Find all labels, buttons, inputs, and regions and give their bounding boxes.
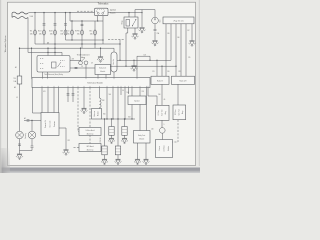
junction J10	[81, 43, 82, 44]
inline connector	[18, 144, 21, 145]
horn H1 body	[152, 17, 159, 24]
GPS aerial box	[79, 144, 101, 152]
svg-text:Theft Deterrent: Theft Deterrent	[77, 53, 90, 56]
svg-text:Telematics: Telematics	[98, 2, 110, 5]
relay (telematics)	[128, 13, 130, 17]
resistor	[115, 146, 120, 155]
junction	[124, 118, 125, 119]
junction	[125, 66, 126, 67]
fuse F4 (IGN 10A)	[64, 30, 67, 35]
ground	[139, 28, 146, 34]
ground	[108, 138, 115, 144]
svg-text:Telematics Options: Telematics Options	[4, 36, 7, 53]
wire	[34, 13, 36, 44]
circuit breaker squiggle top-left	[12, 12, 28, 18]
inline connector	[31, 146, 34, 147]
scan shadows	[0, 167, 200, 173]
svg-text:806: 806	[103, 114, 106, 116]
RF door speaker box U4	[173, 105, 186, 120]
wire	[166, 24, 192, 76]
junction J7	[19, 48, 20, 49]
junction	[71, 20, 72, 21]
inline connector	[64, 24, 67, 25]
wire	[96, 9, 104, 13]
fuse F6 (HORN 15A)	[81, 30, 84, 35]
svg-text:46: 46	[164, 99, 166, 101]
svg-text:Telematics Module: Telematics Module	[87, 82, 103, 85]
ground	[81, 108, 88, 114]
inline connector	[27, 120, 30, 121]
wire	[132, 105, 140, 131]
junction	[119, 60, 120, 61]
wire	[154, 24, 156, 40]
ground	[189, 41, 196, 47]
svg-text:150: 150	[167, 71, 170, 73]
middle dual bus	[20, 44, 121, 48]
wire	[98, 16, 103, 44]
svg-text:151: 151	[152, 71, 155, 73]
junction	[111, 118, 112, 119]
ground	[143, 159, 150, 165]
junction	[69, 12, 70, 13]
junction J12	[80, 48, 81, 49]
junction	[31, 120, 32, 121]
wire	[32, 78, 149, 88]
svg-text:546: 546	[109, 94, 112, 96]
svg-text:149: 149	[167, 33, 170, 35]
junction	[106, 118, 107, 119]
svg-text:147: 147	[187, 30, 190, 32]
wire	[77, 10, 95, 12]
right pins	[147, 88, 158, 131]
right top: horn circle branch	[141, 10, 143, 28]
junction J6	[141, 12, 142, 13]
antenna interface module U6	[92, 109, 102, 120]
junction	[65, 12, 66, 13]
antenna coil chain	[100, 88, 102, 109]
junction J3	[71, 39, 72, 40]
wire	[70, 67, 95, 69]
svg-text:(Page Sch 1/2): (Page Sch 1/2)	[173, 21, 184, 23]
wire	[80, 48, 82, 61]
bcm small box	[95, 65, 111, 75]
junction J2	[97, 20, 98, 21]
wire	[59, 128, 66, 150]
schematic border frame	[8, 2, 196, 165]
horn H1 detail	[154, 19, 155, 20]
svg-text:49: 49	[91, 63, 93, 65]
inline connector	[72, 94, 75, 95]
wires from relay right to horn	[70, 59, 81, 62]
ground	[152, 41, 159, 47]
ground	[16, 154, 23, 160]
ignition switch S1 body	[95, 8, 109, 16]
ground	[121, 138, 128, 144]
wire	[33, 88, 42, 114]
ground	[101, 159, 108, 165]
main top bus	[28, 12, 142, 14]
fuse F7 (SEC 10A)	[94, 30, 97, 35]
svg-text:Ignition: Ignition	[110, 9, 116, 12]
wire	[133, 20, 136, 26]
wire	[40, 59, 65, 69]
junction J5	[135, 19, 136, 20]
stub pins with connectors	[68, 88, 73, 103]
wire	[138, 143, 147, 159]
speaker box pins	[132, 88, 140, 97]
coax dashed drops	[74, 88, 91, 148]
svg-text:Horn: Horn	[81, 56, 85, 59]
svg-text:Module: Module	[168, 146, 170, 151]
svg-text:Radio V1: Radio V1	[157, 81, 163, 83]
svg-text:115: 115	[188, 57, 191, 59]
junction	[43, 12, 44, 13]
theft deterrent horn terminal 1	[79, 61, 83, 65]
telematics module strip	[32, 78, 150, 88]
mid ground left of pill	[100, 48, 102, 56]
svg-text:146: 146	[127, 92, 130, 94]
svg-text:TEL: TEL	[13, 78, 16, 80]
resistor	[122, 127, 127, 136]
junction J4	[132, 25, 133, 26]
junction	[81, 20, 82, 21]
wire	[126, 28, 135, 66]
fuse row	[30, 13, 37, 44]
ignition switch	[70, 13, 103, 21]
wire	[117, 119, 119, 159]
junction	[133, 60, 134, 61]
junction J9	[54, 43, 55, 44]
inline connector	[54, 24, 57, 25]
left connector row	[24, 120, 41, 122]
svg-text:146: 146	[177, 37, 180, 39]
inline connector	[75, 67, 78, 68]
theft deterrent horn relay box	[37, 56, 70, 73]
wire	[82, 58, 86, 61]
wire	[85, 65, 87, 78]
svg-text:Module: Module	[98, 111, 100, 116]
svg-text:96: 96	[122, 90, 124, 92]
wire	[65, 13, 67, 40]
junction	[161, 66, 162, 67]
ground	[115, 159, 122, 165]
wire	[108, 39, 125, 41]
wire	[173, 120, 179, 142]
junction	[131, 118, 132, 119]
junction	[117, 118, 118, 119]
fuse F1 (TEL 10A)	[34, 30, 37, 35]
inline connector	[67, 94, 70, 95]
scan left shadow (decor)	[0, 0, 2, 173]
OnStar communication module U5 body	[156, 140, 173, 158]
junction J8	[54, 48, 55, 49]
resistor	[102, 146, 107, 155]
right column small boxes	[162, 84, 178, 105]
fuse F5 (TD 15A)	[71, 30, 74, 35]
inline connector	[154, 29, 157, 30]
microphone M1	[160, 128, 166, 134]
page box top right	[163, 17, 194, 24]
junction J11	[94, 43, 95, 44]
svg-text:Radio 12V: Radio 12V	[179, 81, 186, 83]
paper background	[0, 0, 200, 173]
junction	[34, 12, 35, 13]
junction	[156, 60, 157, 61]
right mid busses	[110, 56, 176, 77]
svg-text:128: 128	[178, 71, 181, 73]
relay K1 coil	[126, 20, 130, 27]
svg-text:844: 844	[128, 117, 131, 119]
resistor	[109, 127, 114, 136]
wire	[81, 21, 83, 48]
speaker box	[128, 96, 146, 105]
svg-text:Relay: Relay	[122, 20, 124, 24]
ground	[132, 34, 139, 40]
aerial boxes	[79, 128, 101, 136]
junction J14	[47, 48, 48, 49]
scan right shadow (decor)	[198, 0, 200, 166]
relay K1 (telematics relay) body	[124, 17, 138, 28]
wire	[98, 75, 106, 78]
svg-text:28: 28	[81, 66, 83, 68]
receiver box	[41, 113, 59, 136]
fuse F3 (BCM 10A)	[54, 30, 57, 35]
stub pin 128.5	[128, 88, 130, 95]
junction	[149, 60, 150, 61]
wire	[124, 119, 126, 138]
junction	[104, 118, 105, 119]
stub pin 121	[120, 88, 122, 96]
junction	[128, 12, 129, 13]
svg-text:Switch: Switch	[110, 11, 116, 14]
wire	[66, 39, 104, 41]
security lamp L2	[28, 131, 36, 139]
svg-text:201: 201	[142, 91, 145, 93]
ground	[97, 57, 104, 63]
wire	[135, 10, 155, 18]
junction	[175, 66, 176, 67]
scan corner shadow (decor)	[0, 148, 10, 173]
svg-text:IGN: IGN	[60, 31, 63, 33]
wire	[94, 21, 96, 48]
wire	[58, 62, 62, 67]
svg-text:Module: Module	[100, 71, 105, 73]
wire	[31, 121, 33, 132]
svg-text:HORN: HORN	[75, 31, 79, 33]
wire	[29, 132, 34, 137]
svg-text:246: 246	[158, 94, 161, 96]
junction J1	[102, 39, 103, 40]
wire	[43, 13, 45, 45]
svg-text:Comm: Comm	[159, 146, 161, 151]
theft deterrent horn terminal 2	[84, 61, 88, 65]
junction J18	[100, 48, 101, 49]
wire	[54, 13, 56, 45]
mic circle and onstar module	[161, 120, 163, 127]
junction J13	[119, 43, 120, 44]
lamps bottom left	[16, 131, 24, 139]
wire	[114, 48, 171, 77]
junction	[124, 118, 125, 119]
svg-text:812: 812	[68, 140, 71, 142]
ground	[131, 66, 138, 72]
wire	[134, 60, 162, 76]
fuse F2 (RDO 10A)	[43, 30, 46, 35]
ground	[63, 150, 70, 156]
wire	[20, 139, 33, 154]
vertical pill connector	[111, 52, 117, 72]
svg-text:451: 451	[43, 91, 46, 93]
bus drop pins	[107, 88, 125, 120]
left fuse block component	[17, 76, 22, 84]
wire	[111, 119, 113, 138]
BCM bottom box	[134, 131, 151, 144]
relay K2 coil	[52, 62, 57, 68]
junction J16	[54, 52, 55, 53]
junction	[54, 12, 55, 13]
wire	[161, 133, 163, 139]
strip pins down: receiver pins	[42, 88, 59, 113]
radio 12V feed box	[172, 76, 195, 84]
inline connector	[43, 24, 46, 25]
LF door speaker box U3	[156, 105, 170, 120]
svg-text:149: 149	[144, 54, 147, 56]
wire	[17, 132, 22, 137]
svg-text:41: 41	[16, 97, 18, 99]
ground	[134, 159, 141, 165]
solid mid ground drop	[83, 88, 85, 109]
wire	[43, 72, 48, 78]
relay box feeds	[32, 44, 63, 78]
ignition switch contact B	[102, 13, 104, 15]
resistor chains	[104, 119, 106, 159]
svg-text:249: 249	[72, 58, 75, 60]
svg-text:550 BK: 550 BK	[100, 138, 102, 143]
wire	[119, 40, 121, 61]
svg-text:892: 892	[102, 100, 105, 102]
left long vertical from breaker	[20, 17, 63, 76]
junction	[112, 118, 113, 119]
wire	[71, 21, 73, 40]
svg-text:TEL: TEL	[30, 31, 33, 33]
wire	[19, 84, 21, 131]
svg-text:Module: Module	[139, 138, 144, 140]
ignition switch contact A	[97, 13, 99, 15]
radio boxes	[151, 76, 169, 84]
junction J17	[31, 48, 32, 49]
svg-text:140: 140	[151, 129, 154, 131]
inline connector	[81, 24, 84, 25]
bottom center bus	[102, 118, 136, 120]
junction J15	[47, 52, 48, 53]
